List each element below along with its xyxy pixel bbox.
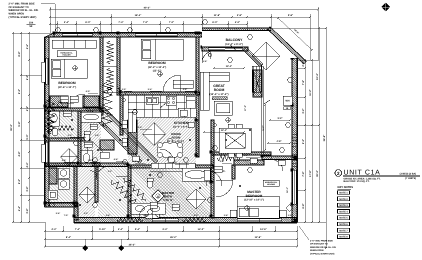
svg-text:2’-8”: 2’-8” — [237, 14, 243, 17]
svg-text:26’-2”: 26’-2” — [170, 236, 177, 239]
svg-text:WINDOW OR SL. GL. DR.: WINDOW OR SL. GL. DR. — [310, 246, 337, 249]
hall closet zigzag horizontal — [48, 117, 53, 135]
svg-text:30’-4”: 30’-4” — [10, 123, 13, 130]
left dimension chain 3 — [28, 33, 30, 222]
bedroom1 dresser band — [52, 40, 96, 48]
bedroom2 dresser — [173, 80, 193, 88]
bold left zigzag — [47, 98, 55, 134]
svg-text:5’-8”: 5’-8” — [56, 212, 60, 215]
window sill ticks bottom wall — [152, 218, 281, 223]
bath2 toilet — [52, 128, 58, 136]
svg-text:36’-2”: 36’-2” — [129, 244, 136, 247]
kitchen-great room wall — [196, 120, 199, 157]
svg-text:3’-8”: 3’-8” — [26, 208, 29, 214]
svg-text:4’-4”: 4’-4” — [144, 214, 148, 217]
sliding glass door — [208, 48, 242, 51]
exterior top wall — [54, 33, 202, 37]
bedrooms closet rod zigzag upper — [107, 41, 113, 64]
svg-text:(9’-0” x 10’-0”): (9’-0” x 10’-0”) — [168, 140, 184, 143]
left dimension chain outer — [12, 33, 14, 222]
svg-text:BEDROOM: BEDROOM — [58, 81, 75, 85]
svg-text:5’-0”: 5’-0” — [68, 134, 72, 137]
bath2 shower diamond — [61, 149, 78, 166]
svg-text:(12’-0” x 8’-4”): (12’-0” x 8’-4”) — [173, 126, 189, 129]
bath wall vertical — [78, 111, 81, 166]
smoke detector marks — [123, 99, 126, 102]
scattered leader ticks — [60, 91, 260, 164]
svg-text:4’-8”: 4’-8” — [18, 151, 21, 157]
left dimension chain 2 — [20, 33, 22, 222]
svg-text:ROOM: ROOM — [172, 135, 181, 139]
clutter short lines — [60, 99, 222, 207]
master bath tile — [131, 168, 211, 218]
interior dim hall2 — [268, 142, 290, 144]
svg-text:(12’-2” x 10’-4”): (12’-2” x 10’-4”) — [148, 66, 167, 69]
master toilet — [147, 180, 153, 188]
svg-text:7’-0”: 7’-0” — [169, 21, 175, 24]
north diamond marker top right — [381, 3, 390, 12]
svg-text:4’-6”: 4’-6” — [62, 159, 66, 162]
bedroom2 bed — [141, 39, 183, 60]
svg-text:NOTE 1: NOTE 1 — [339, 192, 348, 195]
foyer X-braced square — [145, 206, 159, 218]
svg-text:5’-8”: 5’-8” — [18, 121, 21, 127]
left wall insulation zigzag — [45, 100, 49, 132]
window sill ticks top wall — [62, 33, 177, 37]
svg-text:3’-2”: 3’-2” — [277, 117, 282, 120]
interior dim hall — [270, 119, 290, 121]
svg-text:BEDROOM: BEDROOM — [246, 194, 263, 198]
kitchen cabinets second row — [128, 109, 178, 117]
balcony unit wall w/ slider — [202, 47, 248, 51]
hall lower room tile — [75, 167, 95, 218]
door arcs extra — [96, 51, 214, 180]
bedroom1 bottom wall — [45, 108, 103, 111]
laundry right wall — [74, 166, 77, 206]
svg-text:7’-8”: 7’-8” — [302, 79, 305, 85]
svg-text:(10’-6” x 10’-7”): (10’-6” x 10’-7”) — [58, 86, 77, 89]
kitchen peninsula — [128, 112, 136, 132]
bedroom2 bottom wall / kitchen top — [120, 92, 200, 95]
foyer door arc to great room — [206, 170, 222, 186]
svg-text:NOTE 3: NOTE 3 — [339, 204, 348, 207]
laundry wall — [45, 163, 100, 166]
svg-text:4’-4”: 4’-4” — [18, 205, 21, 211]
notch wall vertical bottom-left — [74, 205, 78, 220]
left dims tie lines — [13, 33, 54, 222]
master entry door arc — [216, 180, 233, 197]
svg-text:BALCONY: 174 SQ. FT.: BALCONY: 174 SQ. FT. — [344, 180, 370, 183]
master bath keynote diamond B — [152, 190, 165, 203]
bottom-right note leader — [299, 226, 309, 240]
key note boxes — [338, 191, 350, 195]
svg-text:3’-6”: 3’-6” — [124, 196, 128, 199]
left wall window sill boxes — [42, 62, 46, 82]
svg-text:B: B — [157, 195, 159, 198]
master suite wall vertical — [211, 152, 214, 218]
svg-text:5’-4”: 5’-4” — [148, 88, 152, 91]
svg-text:2’-6”: 2’-6” — [133, 160, 137, 163]
clipped corner wall diagonal — [243, 47, 263, 67]
svg-text:5’-2”: 5’-2” — [302, 138, 305, 144]
master tub — [182, 168, 210, 181]
svg-text:3’-0”: 3’-0” — [58, 100, 62, 103]
svg-text:4’-0”: 4’-0” — [235, 21, 241, 24]
title circled number 2 — [335, 170, 342, 177]
ceiling fan symbol bedroom1 — [73, 66, 77, 70]
right dims tie lines — [271, 28, 326, 222]
svg-text:14’-1”: 14’-1” — [286, 187, 289, 193]
svg-text:(TYPICAL EVERY UNIT): (TYPICAL EVERY UNIT) — [310, 252, 335, 255]
svg-text:2: 2 — [337, 171, 340, 176]
interior dim great room top — [214, 67, 244, 69]
master double vanity — [131, 203, 165, 214]
svg-text:7’-0”: 7’-0” — [143, 21, 149, 24]
kitchen tile — [128, 95, 196, 165]
master closet zigzag — [217, 155, 240, 161]
great room coffee table — [214, 101, 232, 115]
great room label tag — [212, 97, 227, 100]
svg-text:5’-0”: 5’-0” — [220, 160, 224, 163]
exterior bottom wall — [74, 218, 297, 223]
bottom dims drop lines — [45, 222, 297, 247]
dining chairs — [228, 124, 234, 128]
svg-text:BATH: BATH — [164, 194, 172, 198]
entry door arc — [271, 152, 283, 171]
hall bath vanity — [81, 150, 92, 166]
entry foyer tile — [131, 163, 213, 218]
svg-text:(TYPICAL EVERY UNIT): (TYPICAL EVERY UNIT) — [9, 16, 37, 19]
right dimension chain middle — [311, 60, 313, 222]
bedrooms closet rod zigzag lower — [107, 68, 113, 90]
great room / master wall horizontal — [211, 152, 271, 155]
diagonal closet zigzag 1 — [112, 180, 138, 206]
master bath top wall — [128, 165, 213, 168]
svg-text:6’-0”: 6’-0” — [86, 90, 90, 93]
hall bath tub — [81, 112, 101, 122]
entry wall segment — [262, 156, 297, 160]
svg-text:HOLDER: HOLDER — [63, 54, 72, 57]
svg-text:4’-4”: 4’-4” — [26, 162, 29, 168]
svg-text:3’-4”: 3’-4” — [162, 228, 168, 231]
overall top dimension 40'-2" — [50, 9, 318, 11]
kitchen right cabinets — [178, 108, 196, 117]
laundry tile — [49, 166, 74, 203]
corner glass door on diagonal — [252, 66, 261, 92]
diagonal hall wall upper — [86, 107, 143, 164]
refrigerator — [186, 96, 195, 108]
small wall stub kitchen-left — [120, 95, 123, 135]
bottom wall window bath — [152, 219, 178, 222]
svg-text:2’-4”: 2’-4” — [95, 134, 99, 137]
hall lower wall band — [45, 163, 128, 167]
svg-text:5F: 5F — [29, 25, 32, 28]
right wall rung ticks — [292, 134, 297, 166]
interior dim entry — [264, 105, 266, 150]
svg-text:7’-4”: 7’-4” — [75, 228, 81, 231]
svg-text:30’-4”: 30’-4” — [316, 169, 319, 176]
linen closet shelves — [83, 96, 99, 107]
top-left note leader — [41, 4, 55, 33]
fan great room — [226, 118, 230, 122]
dining table — [219, 128, 251, 153]
left wall window 2 — [46, 142, 49, 164]
svg-text:6’-8”: 6’-8” — [302, 203, 305, 209]
balcony planter X — [252, 42, 280, 70]
hall bath tile — [81, 111, 101, 166]
interior dim kitchen — [204, 131, 244, 133]
title underline — [343, 175, 420, 177]
bottom dimension chain 1 — [45, 230, 297, 232]
balcony floor — [202, 30, 297, 58]
svg-text:3’-2”: 3’-2” — [302, 108, 305, 114]
top wall window bedroom 2 — [135, 34, 177, 37]
grid marker diamond B — [118, 245, 124, 251]
svg-text:13’-0”: 13’-0” — [198, 228, 205, 231]
keynote hexagons scattered — [55, 28, 60, 32]
linen 2 — [49, 168, 57, 184]
balcony diagonal dim square — [252, 42, 280, 70]
svg-text:7’-0”: 7’-0” — [64, 214, 68, 217]
svg-text:NOTE 4: NOTE 4 — [339, 210, 348, 213]
wall bedroom1 right / closet — [100, 37, 103, 115]
svg-text:2’-4”: 2’-4” — [64, 21, 70, 24]
svg-text:5’-4”: 5’-4” — [135, 228, 141, 231]
svg-text:2’-2”: 2’-2” — [56, 35, 60, 38]
svg-text:2’-2”: 2’-2” — [108, 170, 112, 173]
svg-text:3’-8”: 3’-8” — [106, 214, 110, 217]
interior door arcs hall — [87, 141, 104, 153]
svg-text:4’-4”: 4’-4” — [51, 228, 57, 231]
svg-text:40’-2”: 40’-2” — [144, 7, 151, 10]
svg-text:11’-2”: 11’-2” — [309, 88, 312, 95]
wh closet — [283, 96, 292, 105]
svg-text:3’-8”: 3’-8” — [26, 186, 29, 192]
svg-text:5’-0”: 5’-0” — [26, 134, 29, 140]
right dimension chain inner — [304, 60, 306, 222]
closet shelf lines — [103, 40, 117, 92]
master bath left wall — [128, 165, 131, 218]
svg-text:NOTE 8: NOTE 8 — [339, 236, 348, 239]
hall lower vertical wall — [95, 166, 98, 202]
svg-text:8’-4”: 8’-4” — [66, 236, 72, 239]
diagonal closet zigzag 2 — [124, 178, 146, 200]
bedroom1 door arc — [70, 94, 84, 108]
svg-text:18’-4”: 18’-4” — [135, 14, 142, 17]
svg-text:(12’-4” x 17’-2”): (12’-4” x 17’-2”) — [209, 93, 228, 96]
svg-text:HOLDER: HOLDER — [267, 183, 276, 186]
svg-text:7’-8”: 7’-8” — [302, 171, 305, 177]
svg-text:11’-8”: 11’-8” — [214, 14, 221, 17]
svg-text:2’-0” MIN. FROM SIDE: 2’-0” MIN. FROM SIDE — [310, 240, 333, 243]
svg-text:6’-0”: 6’-0” — [85, 21, 91, 24]
hall wall below bedroom1 — [45, 138, 90, 141]
kitchen sink — [146, 97, 158, 104]
bottom wall insulation zigzag 1 — [117, 218, 143, 222]
right dimension chain outer — [318, 28, 320, 222]
bedroom1 holder note box — [57, 51, 76, 57]
ceiling fan symbol bedroom2 — [158, 72, 162, 76]
small wall stub entry — [211, 120, 214, 152]
svg-text:12’-8”: 12’-8” — [255, 236, 262, 239]
master bath vanity boxes row — [151, 163, 195, 168]
nook table oval — [157, 142, 183, 158]
washer dryer — [58, 168, 69, 178]
left wall window 1 — [46, 58, 49, 84]
svg-text:36’-8”: 36’-8” — [323, 134, 326, 141]
master shower diamond — [186, 189, 206, 209]
wall junction posts — [52, 31, 55, 34]
bath 2 tile floor — [49, 111, 78, 138]
dresser note box — [263, 180, 279, 186]
svg-text:3’-0”: 3’-0” — [88, 159, 92, 162]
right wall door diamond — [286, 205, 293, 212]
svg-text:2’-0”: 2’-0” — [122, 88, 126, 91]
master bed — [237, 196, 279, 218]
svg-text:6’-2”: 6’-2” — [194, 214, 198, 217]
svg-text:17’-8”: 17’-8” — [309, 169, 312, 176]
great room sofa L — [200, 72, 209, 110]
second top dimension chain — [50, 16, 310, 18]
hall diagonal tile — [90, 110, 158, 160]
kitchen island rotated — [143, 123, 166, 146]
svg-text:(7 UNITS): (7 UNITS) — [405, 177, 416, 180]
scattered tiny circles (outlets) — [71, 119, 73, 121]
svg-text:5’-8”: 5’-8” — [288, 14, 294, 17]
svg-text:4’-8”: 4’-8” — [183, 88, 187, 91]
svg-text:7’-4”: 7’-4” — [118, 21, 124, 24]
exterior left wall — [45, 37, 49, 207]
svg-text:NOTE 6: NOTE 6 — [339, 223, 348, 226]
svg-text:12’-6”: 12’-6” — [260, 228, 267, 231]
right wall window master — [293, 170, 296, 204]
hall bath toilet — [84, 133, 90, 141]
svg-text:(13’-4” x 9’-4”): (13’-4” x 9’-4”) — [225, 43, 243, 46]
balcony hose bibb marker — [208, 53, 211, 56]
right dimension overall — [325, 28, 327, 248]
svg-text:3’-4”: 3’-4” — [118, 228, 124, 231]
svg-text:2’-8”: 2’-8” — [224, 214, 228, 217]
notch wall horizontal bottom-left — [45, 203, 78, 207]
third top dimension chain — [50, 23, 247, 25]
master bedroom left wall — [232, 165, 235, 179]
master wardrobe band — [234, 160, 264, 165]
top dim drop lines — [50, 7, 318, 60]
svg-text:3’-0”: 3’-0” — [288, 214, 292, 217]
svg-text:OF EXHAUST TO: OF EXHAUST TO — [310, 243, 328, 246]
svg-text:5’-10”: 5’-10” — [99, 228, 106, 231]
diagonal hall wall lower — [102, 107, 159, 164]
clutter small rects bath column — [60, 96, 68, 102]
svg-text:6’-0”: 6’-0” — [212, 21, 218, 24]
svg-text:12’-4”: 12’-4” — [226, 65, 232, 68]
exterior right wall — [292, 58, 297, 222]
balcony rail diagonal wall — [268, 27, 307, 64]
exterior wall outer face lines — [44, 32, 298, 223]
svg-text:12’-4”: 12’-4” — [221, 129, 227, 132]
svg-text:5’-2”: 5’-2” — [18, 178, 21, 184]
bottom wall window master — [237, 219, 281, 222]
svg-text:NOTE 2: NOTE 2 — [339, 198, 348, 201]
balcony diagonal outer dim line — [278, 18, 312, 50]
kitchen range — [166, 96, 176, 105]
bedroom2 door arc — [163, 75, 180, 92]
bath2 shelf blob — [50, 96, 68, 107]
linen shelves mid — [100, 140, 114, 150]
svg-text:3’-6”: 3’-6” — [203, 60, 207, 63]
svg-text:NOTE 5: NOTE 5 — [339, 217, 348, 220]
bottom overall dimension — [45, 246, 297, 248]
svg-text:BEDROOM: BEDROOM — [148, 61, 165, 65]
pantry shelves — [128, 120, 137, 154]
svg-text:KITCHEN: KITCHEN — [174, 121, 189, 125]
svg-text:4’-6”: 4’-6” — [26, 43, 29, 49]
svg-text:5’-2”: 5’-2” — [262, 125, 265, 130]
svg-text:2’-8”: 2’-8” — [184, 35, 188, 38]
svg-text:WH: WH — [286, 100, 290, 103]
great room east window mullion lines — [262, 66, 264, 155]
svg-text:(13’-10” x 14’-1”): (13’-10” x 14’-1”) — [244, 199, 264, 202]
grid marker diamond A — [82, 245, 88, 251]
wic wall — [211, 152, 214, 182]
shower diamond lower hall — [79, 187, 95, 203]
bath2 vanity — [49, 111, 59, 126]
svg-text:10’-4”: 10’-4” — [316, 72, 319, 79]
svg-text:TYPE ‘B”: TYPE ‘B” — [163, 199, 175, 202]
bottom wall insulation zigzag 2 — [182, 218, 206, 222]
svg-text:9’-2”: 9’-2” — [244, 154, 248, 157]
svg-text:3’-4”: 3’-4” — [128, 35, 132, 38]
closet band above master bath (thin) — [150, 170, 182, 172]
closet wall between bedrooms — [117, 37, 120, 95]
svg-text:(3 BED) (2 BA): (3 BED) (2 BA) — [400, 172, 417, 175]
misc leader arrows — [90, 45, 270, 174]
svg-text:8’-0”: 8’-0” — [173, 161, 177, 164]
bottom dimension chain 2 — [45, 238, 297, 240]
svg-text:3’-2”: 3’-2” — [84, 212, 88, 215]
kitchen counter top run — [128, 95, 196, 109]
master nightstands — [230, 210, 237, 217]
bold linen zigzag column — [102, 82, 112, 128]
svg-text:8’-8”: 8’-8” — [18, 51, 21, 57]
media console right wall — [253, 70, 262, 97]
top wall window bedroom 1 — [62, 34, 92, 37]
svg-text:2’-8”: 2’-8” — [90, 106, 94, 109]
bedroom2 right wall — [196, 37, 199, 157]
svg-text:BALCONY: BALCONY — [226, 38, 244, 42]
kitchen cabinets detail — [136, 95, 184, 109]
svg-text:4’-8”: 4’-8” — [276, 140, 281, 143]
svg-text:4’-0”: 4’-0” — [138, 126, 142, 129]
svg-text:5’-2”: 5’-2” — [18, 88, 21, 94]
fan master — [245, 206, 249, 210]
svg-text:ROOM: ROOM — [214, 88, 225, 92]
laundry sink — [48, 190, 57, 199]
svg-text:NOTE 7: NOTE 7 — [339, 229, 348, 232]
svg-text:17’-2”: 17’-2” — [244, 105, 247, 111]
svg-text:6’-8”: 6’-8” — [114, 158, 118, 161]
bedroom1 bed — [51, 59, 87, 78]
balcony rail front — [202, 28, 271, 31]
svg-text:WHEN OPEN: WHEN OPEN — [310, 249, 324, 252]
